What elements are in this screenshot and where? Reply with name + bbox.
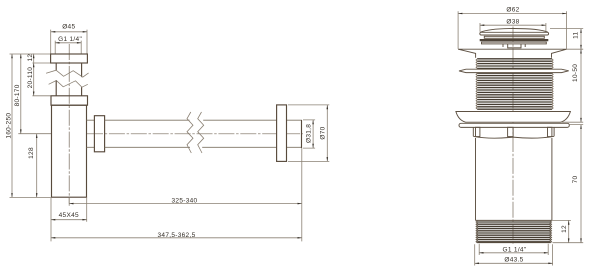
bottom extension lines right drawing (475, 244, 553, 266)
svg-text:20-110: 20-110 (27, 67, 34, 89)
dim G1 1/4 line (55, 41, 81, 54)
right dim extension lines (550, 29, 583, 243)
outlet pipe bottom line (105, 146, 302, 148)
wall flange (277, 105, 287, 161)
bottom extension lines (51, 148, 302, 241)
pipe end cap line (301, 120, 303, 148)
trap body (52, 105, 87, 197)
svg-text:12: 12 (561, 225, 568, 233)
clicker stem (508, 44, 521, 48)
tail threads (477, 222, 550, 242)
svg-text:10-50: 10-50 (572, 64, 579, 82)
outlet stub from body (87, 120, 95, 147)
svg-text:160-250: 160-250 (5, 113, 12, 139)
svg-text:45X45: 45X45 (59, 212, 79, 219)
bottom flange dish (456, 112, 571, 123)
sealing gasket (459, 123, 569, 127)
svg-text:Ø31,8: Ø31,8 (306, 124, 313, 143)
clicker pin left (502, 44, 504, 47)
collar wavy bottom (473, 136, 554, 138)
centerline vertical of trap (68, 44, 70, 204)
cap seal plate (dark) (480, 39, 549, 41)
outlet pipe top line (105, 119, 302, 121)
dim Ø62 line (458, 11, 566, 49)
svg-text:80-170: 80-170 (14, 84, 21, 106)
inlet tube lower (56, 81, 81, 96)
neck thread serration right (552, 59, 553, 109)
svg-text:Ø45: Ø45 (62, 24, 75, 31)
inlet tube upper (56, 63, 81, 77)
svg-text:Ø70: Ø70 (320, 126, 327, 139)
left dim extension lines (10, 54, 52, 197)
svg-text:Ø38: Ø38 (506, 19, 519, 26)
dim Ø45 line (51, 30, 87, 54)
break zigzag band 1 (46, 70, 89, 77)
outlet nut (94, 116, 104, 152)
collar (473, 127, 554, 136)
clicker pin right (524, 44, 526, 47)
cap plate 1 (484, 36, 544, 38)
tail thread serration left (476, 221, 478, 243)
svg-text:128: 128 (28, 147, 35, 159)
tail thread top edge (476, 219, 552, 221)
inlet flange (51, 54, 88, 63)
centerline horizontal of outlet pipe (87, 133, 303, 135)
lock washer (459, 69, 569, 72)
dim Ø38 line (480, 23, 546, 32)
cap dome base capsule (480, 32, 549, 35)
trap nut (51, 96, 88, 105)
svg-text:70: 70 (572, 176, 579, 184)
break zigzag band 2 (49, 81, 88, 88)
svg-text:Ø43.5: Ø43.5 (504, 257, 523, 264)
cap plate 3 (482, 42, 547, 44)
pipe break zigzag right (198, 112, 204, 153)
collar tab right (548, 127, 552, 136)
cap dome top arc (481, 29, 548, 33)
svg-text:Ø62: Ø62 (506, 7, 519, 14)
collar tab left (476, 127, 480, 136)
tail thread serration right (550, 221, 552, 243)
pipe break zigzag left (187, 112, 193, 153)
collar tab middle (508, 127, 513, 136)
neck thread serration left (476, 59, 477, 109)
centerline vertical of valve (512, 27, 514, 245)
tail cylinder (476, 138, 552, 220)
dim Ø45 arrows (51, 31, 55, 33)
body top flange (458, 49, 566, 58)
svg-text:G1 1/4": G1 1/4" (58, 36, 82, 43)
svg-text:11: 11 (573, 31, 580, 38)
threaded neck (477, 59, 552, 109)
dim G1 1/4 arrows (55, 42, 59, 44)
tail bottom edge (477, 242, 550, 244)
